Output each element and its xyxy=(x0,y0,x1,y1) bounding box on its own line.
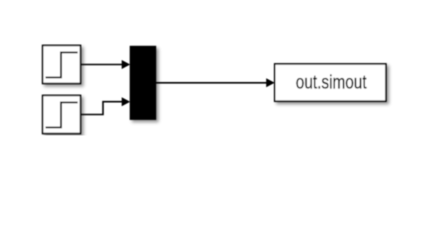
step waveform icon of bottom Step1 block xyxy=(46,102,78,127)
out.simout block (To Workspace) xyxy=(275,64,386,101)
wire from Mux output to out.simout block xyxy=(156,82,268,84)
arrowhead into Mux input 1 xyxy=(122,60,131,69)
step block Step (top source block) xyxy=(43,45,81,83)
wire from Step1 to Mux input 2 (with jog) xyxy=(81,102,123,115)
step waveform icon of top Step block xyxy=(46,52,78,77)
mux block (black vertical bar) xyxy=(130,46,156,119)
svg-text:out.simout: out.simout xyxy=(296,72,367,94)
step block Step1 (bottom source block) xyxy=(43,95,81,133)
wire from Step to Mux input 1 xyxy=(81,64,123,66)
arrowhead into out.simout block xyxy=(266,78,275,87)
arrowhead into Mux input 2 xyxy=(122,97,131,106)
